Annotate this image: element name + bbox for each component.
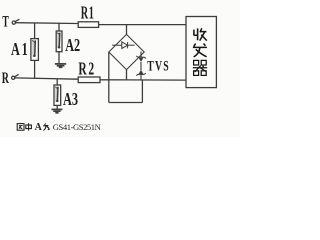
ground (A2) [55, 64, 66, 67]
svg-text:GS41-GS251N: GS41-GS251N [53, 122, 102, 132]
wire R line left [15, 78, 78, 79]
wire R line right [100, 79, 186, 81]
label 收 (shou) in transceiver box [194, 28, 207, 40]
arrester A1 [31, 39, 39, 61]
svg-text:T: T [2, 13, 9, 30]
svg-text:A3: A3 [63, 90, 78, 110]
svg-text:A: A [35, 122, 43, 133]
wire A3 ground lead [56, 105, 58, 109]
wire A1 top lead [34, 23, 36, 39]
svg-text:TVS: TVS [147, 57, 170, 74]
wire bridge top stub [126, 25, 128, 35]
wire A1 bottom lead [34, 60, 36, 78]
diode inside bridge [112, 42, 134, 49]
wire bridge bottom stub [126, 70, 128, 80]
caption 为 [43, 123, 49, 130]
svg-text:R2: R2 [78, 60, 95, 79]
caption 图 [17, 124, 24, 131]
svg-text:A1: A1 [11, 40, 29, 60]
wire A3 top lead [56, 79, 58, 85]
wire lower loop bottom [109, 102, 143, 104]
wire T line left [16, 22, 78, 25]
caption 中 [26, 123, 32, 130]
svg-text:R1: R1 [81, 4, 95, 24]
label 器 (qi) in transceiver box [193, 60, 207, 75]
transceiver box [186, 17, 216, 88]
resistor R1 [78, 22, 98, 28]
wire A2 top lead [58, 23, 60, 31]
arrester A3 [54, 85, 61, 105]
ground (A3) [52, 109, 63, 112]
label 发 (fa) in transceiver box [193, 44, 207, 58]
svg-text:A2: A2 [65, 36, 80, 56]
TVS diode [136, 51, 145, 80]
terminal T [12, 19, 19, 24]
resistor R2 [78, 77, 100, 83]
wire T line right [99, 24, 186, 26]
wire A2 ground lead [58, 52, 60, 64]
bridge rectifier diamond [109, 34, 144, 69]
wire lower loop right vertical [141, 80, 143, 103]
arrester A2 [56, 31, 62, 52]
terminal R [12, 74, 19, 79]
svg-text:R: R [2, 69, 9, 87]
wire bridge left vertex down (crosses R line) [108, 52, 110, 103]
